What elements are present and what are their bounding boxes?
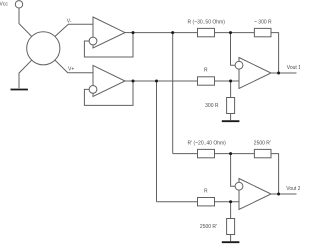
svg-text:V-: V-: [67, 18, 72, 24]
ground (2500R'): [222, 241, 240, 243]
svg-text:R: R: [204, 68, 208, 74]
resistor R (~30..50 Ohm): [198, 28, 215, 36]
wire node D down to resistor 300R: [230, 81, 232, 98]
wire row C right + feedback down to Vout2: [271, 154, 279, 194]
resistor R (row B): [198, 77, 215, 85]
wire row B right: [215, 80, 240, 82]
wire node A down to row C: [172, 33, 174, 154]
junction U1 output: [132, 31, 135, 34]
svg-text:V+: V+: [68, 66, 74, 72]
wire sensor to ground: [19, 60, 32, 88]
wire U2 output: [125, 80, 133, 82]
wire U4 output Vout2: [271, 193, 297, 195]
wire U2 feedback: [84, 81, 133, 105]
op-amp U2 inverting input circle: [89, 86, 97, 94]
op-amp U3 input circle: [235, 61, 243, 69]
resistor 2500 R' (vertical): [227, 219, 235, 235]
ground (300R): [222, 120, 240, 122]
wire 300R to ground: [230, 114, 232, 121]
resistor 300 R (vertical): [227, 98, 235, 114]
node Vcc terminal: [15, 1, 22, 8]
wire node C down to row D: [156, 81, 158, 202]
svg-text:R (~30..50 Ohm): R (~30..50 Ohm): [188, 20, 226, 26]
wire 2500R' to ground: [230, 235, 232, 242]
wire node F down to resistor 2500R': [230, 202, 232, 219]
op-amp U4: [239, 179, 271, 210]
junction Vout1: [277, 72, 280, 75]
resistor ~300 R: [254, 28, 271, 36]
wire row A middle: [215, 32, 255, 34]
wire U1 feedback: [84, 33, 133, 57]
resistor R (row D): [198, 198, 215, 206]
resistor R' (~20..40 Ohm): [198, 149, 215, 157]
op-amp buffer U1: [93, 17, 125, 48]
svg-text:~ 300 R: ~ 300 R: [254, 20, 272, 26]
op-amp U4 input circle: [235, 182, 243, 190]
wire row D left: [157, 201, 198, 203]
junction node C: [155, 80, 158, 83]
junction Vout2: [277, 193, 280, 196]
wire row A left: [133, 32, 198, 34]
sensor bridge circle S1: [27, 32, 60, 65]
junction node F: [229, 200, 232, 203]
wire row B left: [133, 80, 198, 82]
wire node B down to U3 circle input: [231, 33, 236, 66]
junction node E: [229, 152, 232, 155]
svg-text:300 R: 300 R: [205, 103, 219, 109]
wire node E down to U4 circle input: [231, 154, 236, 187]
op-amp U3: [239, 58, 271, 89]
wire row C middle: [215, 153, 255, 155]
svg-text:Vout 2: Vout 2: [286, 186, 300, 192]
wire U1 output: [125, 32, 133, 34]
junction node A: [171, 31, 174, 34]
op-amp U1 inverting input circle: [89, 37, 97, 45]
wire row C left: [173, 153, 198, 155]
ground (sensor): [11, 89, 28, 91]
wire Vcc to sensor: [19, 8, 32, 36]
svg-text:R' (~20..40 Ohm): R' (~20..40 Ohm): [188, 141, 227, 147]
wire row D right: [215, 201, 240, 203]
wire sensor to V-: [55, 24, 93, 36]
junction node B: [229, 31, 232, 34]
svg-text:2500 R': 2500 R': [200, 224, 217, 230]
junction U2 output: [132, 80, 135, 83]
svg-text:R: R: [204, 189, 208, 195]
op-amp buffer U2: [93, 65, 125, 96]
wire row A right + feedback down to Vout1: [271, 33, 279, 73]
svg-text:Vout 1: Vout 1: [287, 65, 300, 71]
svg-text:Vcc: Vcc: [0, 2, 8, 8]
wire sensor to V+: [55, 60, 93, 72]
svg-text:2500 R': 2500 R': [254, 141, 271, 147]
resistor 2500 R': [254, 149, 271, 157]
wire U3 output Vout1: [271, 72, 297, 74]
junction node D: [229, 80, 232, 83]
